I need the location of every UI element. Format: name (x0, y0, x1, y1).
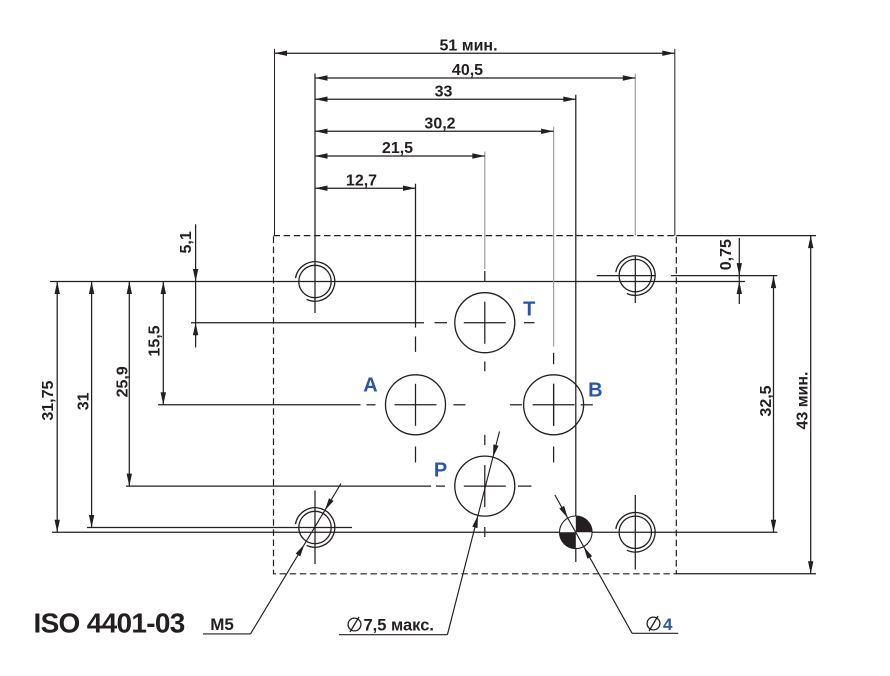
port T (455, 293, 515, 353)
extension line x=415.5 (12,7 dim to port A) (415, 184, 417, 328)
dimension 21,5 (315, 155, 485, 157)
extension line x=274.5 (51 min left) (274, 49, 276, 236)
dimension 30,2 (315, 130, 554, 132)
bolt hole M5 bottom-right (616, 512, 655, 552)
svg-text:32,5: 32,5 (758, 385, 775, 416)
extension line x=553.6 gray (30,2 dim) (553, 127, 555, 347)
plate top edge extension to 43 dim (676, 235, 816, 237)
extension line x=484.8 gray (21,5 dim) (484, 152, 486, 270)
dimension 40,5 (315, 77, 635, 79)
svg-text:21,5: 21,5 (382, 140, 413, 157)
svg-text:31: 31 (76, 392, 93, 410)
port B (524, 375, 584, 435)
extension line x=635.3 gray (40,5 dim) (634, 74, 636, 236)
axis line x=315 (left hole column) (314, 74, 316, 314)
svg-text:4: 4 (663, 615, 673, 634)
svg-text:T: T (523, 299, 535, 321)
svg-text:0,75: 0,75 (718, 239, 735, 270)
extension line x=674.8 (51 min right) (674, 49, 676, 236)
dimension 51 мин. (plate width) (275, 52, 675, 54)
svg-text:P: P (434, 460, 447, 482)
svg-text:B: B (588, 380, 602, 402)
bottom-left hole axis line (87, 527, 352, 529)
bolt hole M5 top-right (616, 256, 655, 296)
leader ⌀7,5 макс. (port diameter callout) (339, 634, 447, 636)
dimension 12,7 (315, 187, 416, 189)
svg-text:ISO 4401-03: ISO 4401-03 (34, 608, 185, 639)
svg-text:5,1: 5,1 (178, 231, 195, 253)
svg-text:A: A (363, 375, 377, 397)
dimension 25,9 (128, 282, 130, 487)
T port axis line (191, 322, 424, 324)
A port vertical axis dashes (415, 336, 417, 352)
svg-text:12,7: 12,7 (346, 172, 377, 189)
port P (455, 456, 515, 516)
dimension 31,75 (56, 282, 58, 533)
svg-text:43 мин.: 43 мин. (795, 371, 812, 429)
top hole axis line y=281.5 (reference for vertical dims) (50, 281, 745, 283)
dimension 32,5 (773, 276, 775, 533)
svg-text:33: 33 (435, 83, 453, 100)
svg-text:15,5: 15,5 (147, 325, 164, 356)
bolt hole M5 bottom-left (296, 508, 335, 548)
B port vertical axis dashes (553, 353, 555, 364)
svg-text:7,5 макс.: 7,5 макс. (364, 617, 435, 635)
svg-text:51 мин.: 51 мин. (439, 37, 497, 54)
port A (386, 375, 446, 435)
leader ⌀4 (locating pin hole callout) (632, 632, 678, 634)
A-B port axis line (158, 404, 361, 406)
dimension 33 (315, 98, 576, 100)
bottom-right hole vertical axis (634, 495, 636, 570)
svg-text:30,2: 30,2 (424, 116, 455, 133)
dimension 0,75 (arrows outside) (738, 238, 740, 304)
plate outline (dashed mounting-surface rectangle) (274, 236, 677, 574)
axis line x=575.8 (33 dim to locating pin) (575, 95, 577, 562)
T-P vertical axis dashes (484, 271, 486, 282)
locating pin hole 4 mm (quadrant symbol) (560, 516, 593, 549)
top-right hole vertical axis (634, 257, 636, 304)
svg-text:M5: M5 (210, 615, 234, 634)
svg-text:31,75: 31,75 (40, 380, 57, 420)
plate bottom edge extension to 43 dim (676, 573, 816, 575)
bolt hole M5 top-left (296, 262, 335, 302)
leader M5 (bolt-hole thread callout) (203, 633, 251, 635)
bottom-left hole vertical axis (314, 491, 316, 565)
dimension 5,1 (arrows outside) (195, 224, 197, 347)
dimension 31 (91, 282, 93, 528)
dimension 43 мин. (810, 236, 812, 574)
bottom hole axis line y=532.3 (through pin and bottom-right hole) (52, 531, 777, 533)
P port axis line (126, 485, 431, 487)
svg-text:25,9: 25,9 (115, 366, 132, 397)
dimension 15,5 (162, 282, 164, 405)
svg-text:40,5: 40,5 (452, 62, 483, 79)
top-right hole axis line (597, 275, 656, 277)
